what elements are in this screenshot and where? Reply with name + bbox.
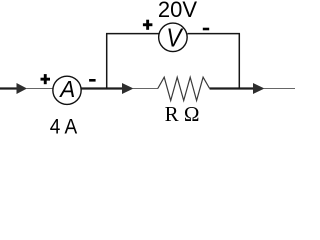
wire: arrow 1 tip to ammeter bbox=[26, 88, 53, 90]
wire: arrow 2 tip to resistor bbox=[133, 88, 159, 90]
polarity - (voltmeter) bbox=[203, 28, 209, 31]
svg-text:4 A: 4 A bbox=[50, 116, 78, 139]
voltmeter U2 circle bbox=[159, 23, 188, 52]
current arrow 2 (middle) bbox=[122, 83, 134, 94]
svg-text:20V: 20V bbox=[158, 0, 197, 22]
wire: top loop left segment bbox=[106, 33, 160, 35]
wire: ammeter to arrow 2 (thick) bbox=[82, 87, 124, 89]
svg-text:R Ω: R Ω bbox=[165, 102, 200, 126]
resistor R zigzag bbox=[158, 77, 210, 100]
node: left junction vertical riser bbox=[106, 34, 108, 89]
node: right junction vertical riser bbox=[238, 34, 240, 89]
svg-text:A: A bbox=[58, 76, 75, 102]
current arrow 3 (right) bbox=[253, 83, 265, 94]
ammeter U1 circle bbox=[53, 76, 81, 104]
wire: resistor to arrow 3 through right junction (thick) bbox=[210, 87, 254, 89]
polarity + (voltmeter) bbox=[143, 20, 153, 30]
wire: arrow 3 tip to right edge bbox=[264, 88, 296, 90]
polarity + (ammeter) bbox=[41, 74, 51, 84]
polarity - (ammeter) bbox=[89, 79, 96, 82]
current arrow 1 (left) bbox=[17, 83, 28, 94]
wire: left feed (thick) into arrow 1 bbox=[0, 87, 17, 89]
wire: top loop right segment bbox=[188, 33, 241, 35]
svg-text:V: V bbox=[166, 25, 183, 53]
